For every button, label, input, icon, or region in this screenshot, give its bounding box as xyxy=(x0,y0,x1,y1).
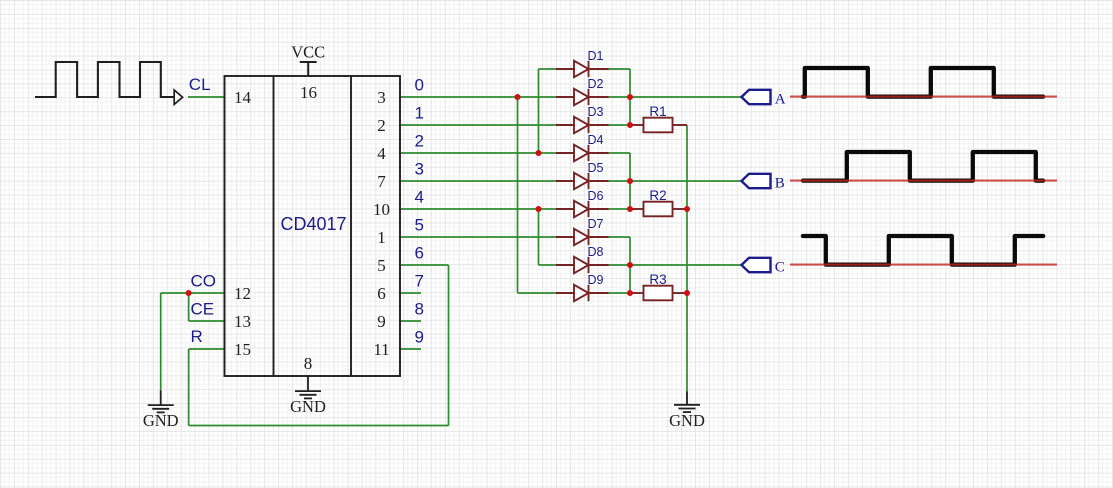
svg-text:16: 16 xyxy=(300,83,317,102)
svg-text:R: R xyxy=(191,327,203,346)
wire U1 output 4 (row) to diode column xyxy=(400,208,561,210)
ground symbol left (CO/CE) xyxy=(148,391,174,413)
svg-text:D6: D6 xyxy=(588,189,604,203)
diode D5 xyxy=(556,173,609,189)
waveform C baseline xyxy=(790,264,1057,266)
svg-text:B: B xyxy=(775,176,785,192)
svg-text:10: 10 xyxy=(373,200,390,219)
junction R2 left junction xyxy=(627,206,633,212)
svg-text:8: 8 xyxy=(415,300,424,319)
svg-text:C: C xyxy=(775,260,785,276)
svg-text:6: 6 xyxy=(377,284,386,303)
svg-text:14: 14 xyxy=(234,88,252,107)
svg-text:4: 4 xyxy=(415,188,424,207)
wire cathode bus phase A vertical (D1-D3) xyxy=(629,69,631,125)
svg-text:7: 7 xyxy=(377,172,386,191)
svg-text:12: 12 xyxy=(234,284,251,303)
wire U1 output 8 stub xyxy=(400,320,421,322)
junction R3 right junction xyxy=(684,290,690,296)
wire CE vertical up to CO junction xyxy=(188,293,190,321)
diode D1 xyxy=(556,61,609,77)
wire resistor common vertical to ground xyxy=(686,125,688,392)
wire anode bus output2: D1 to D4 vertical xyxy=(538,69,540,153)
junction R1 left junction xyxy=(627,122,633,128)
svg-text:GND: GND xyxy=(669,411,705,430)
wire CO vertical down to ground xyxy=(160,293,162,391)
svg-text:4: 4 xyxy=(377,144,386,163)
wire CO net: U1 pin 12 horizontal xyxy=(161,292,225,294)
IC U1 CD4017 body xyxy=(225,76,401,376)
wire U1 output 9 stub xyxy=(400,348,421,350)
diode D6 xyxy=(556,201,609,217)
waveform A trace xyxy=(803,68,1043,97)
svg-text:R1: R1 xyxy=(649,104,666,119)
wire D4 cathode to bus xyxy=(608,152,631,154)
wire U1 output 2 (row) to diode column xyxy=(400,152,561,154)
waveform C trace xyxy=(803,236,1043,265)
svg-text:0: 0 xyxy=(415,76,424,95)
resistor R3 xyxy=(630,286,687,301)
net port flag B xyxy=(742,174,771,188)
junction output2 anode-bus junction xyxy=(536,150,542,156)
wire U1 output 6 horizontal xyxy=(400,264,449,266)
wire D8 anode horizontal xyxy=(539,264,558,266)
wire phase A net to flag A xyxy=(630,96,742,98)
svg-text:3: 3 xyxy=(377,88,386,107)
svg-text:A: A xyxy=(775,92,786,108)
wire R net into U1 pin 15 xyxy=(189,348,225,350)
svg-text:D1: D1 xyxy=(588,49,604,63)
wire D3 cathode to bus xyxy=(608,124,631,126)
diode D4 xyxy=(556,145,609,161)
wire CE net: U1 pin 13 horizontal xyxy=(189,320,225,322)
ground symbol center (U1 pin 8) xyxy=(295,376,321,398)
junction CO/CE junction xyxy=(186,290,192,296)
svg-text:15: 15 xyxy=(234,340,251,359)
svg-text:D3: D3 xyxy=(588,105,604,119)
wire phase B net to flag B xyxy=(630,180,742,182)
net port flag C xyxy=(742,258,771,272)
wire U1 output 0 (row) to diode column xyxy=(400,96,561,98)
wire output 6 vertical down (reset loop) xyxy=(448,265,450,426)
ground symbol right (resistor common) xyxy=(674,392,700,413)
svg-text:5: 5 xyxy=(377,256,386,275)
svg-text:2: 2 xyxy=(415,132,424,151)
svg-text:D5: D5 xyxy=(588,161,604,175)
junction R2 right junction xyxy=(684,206,690,212)
wire anode bus output0: D2 to D9 vertical xyxy=(517,97,519,293)
wire D5 cathode to bus xyxy=(608,180,631,182)
svg-text:R3: R3 xyxy=(649,272,666,287)
diode D3 xyxy=(556,117,609,133)
svg-text:3: 3 xyxy=(415,160,424,179)
junction R3 left junction xyxy=(627,290,633,296)
svg-text:6: 6 xyxy=(415,244,424,263)
waveform B baseline xyxy=(790,180,1057,182)
wire D8 cathode to bus xyxy=(608,264,631,266)
svg-text:2: 2 xyxy=(377,116,386,135)
svg-text:R2: R2 xyxy=(649,188,666,203)
svg-text:1: 1 xyxy=(377,228,386,247)
junction output0 anode-bus junction xyxy=(515,94,521,100)
resistor R2 xyxy=(630,202,687,217)
diode D2 xyxy=(556,89,609,105)
junction phase B cathode junction xyxy=(627,178,633,184)
svg-text:9: 9 xyxy=(415,328,424,347)
wire U1 output 3 (row) to diode column xyxy=(400,180,561,182)
diode D7 xyxy=(556,229,609,245)
wire cathode bus phase B vertical (D4-D6) xyxy=(629,153,631,209)
svg-text:D8: D8 xyxy=(588,245,604,259)
svg-text:D9: D9 xyxy=(588,273,604,287)
clock input square-wave source xyxy=(35,62,174,97)
svg-text:CL: CL xyxy=(189,75,211,94)
svg-text:8: 8 xyxy=(304,354,313,373)
wire D2 cathode to bus xyxy=(608,96,631,98)
wire cathode bus phase C vertical (D7-D9) xyxy=(629,237,631,293)
svg-text:7: 7 xyxy=(415,272,424,291)
junction output4 anode-bus junction xyxy=(536,206,542,212)
svg-text:D2: D2 xyxy=(588,77,604,91)
wire D1 cathode to bus xyxy=(608,68,631,70)
wire U1 output 1 (row) to diode column xyxy=(400,124,561,126)
wire reset loop bottom horizontal xyxy=(189,425,449,427)
waveform A baseline xyxy=(790,96,1057,98)
wire anode bus output4: D6 to D8 vertical xyxy=(538,209,540,265)
junction phase C cathode junction xyxy=(627,262,633,268)
resistor R1 xyxy=(630,118,687,133)
wire U1 output 7 stub xyxy=(400,292,421,294)
wire D9 cathode to bus xyxy=(608,292,631,294)
svg-text:GND: GND xyxy=(143,411,179,430)
wire D7 cathode to bus xyxy=(608,236,631,238)
diode D8 xyxy=(556,257,609,273)
svg-text:1: 1 xyxy=(415,104,424,123)
wire U1 output 5 (row) to diode column xyxy=(400,236,561,238)
net port flag A xyxy=(742,90,771,104)
wire D1 anode horizontal xyxy=(539,68,558,70)
svg-text:VCC: VCC xyxy=(291,43,325,62)
svg-text:GND: GND xyxy=(290,397,326,416)
waveform B trace xyxy=(803,152,1043,181)
svg-text:D4: D4 xyxy=(588,133,604,147)
svg-text:D7: D7 xyxy=(588,217,604,231)
wire D6 cathode to bus xyxy=(608,208,631,210)
svg-text:9: 9 xyxy=(377,312,386,331)
wire CL net: clock arrow to U1 pin 14 xyxy=(188,96,225,98)
svg-text:CD4017: CD4017 xyxy=(280,214,346,234)
svg-text:5: 5 xyxy=(415,216,424,235)
wire phase C net to flag C xyxy=(630,264,742,266)
diode D9 xyxy=(556,285,609,301)
svg-text:11: 11 xyxy=(373,340,389,359)
VCC power symbol xyxy=(300,62,317,76)
svg-text:CE: CE xyxy=(191,300,215,319)
clock arrow into CL pin xyxy=(174,90,182,104)
svg-text:13: 13 xyxy=(234,312,251,331)
wire D9 anode horizontal xyxy=(518,292,558,294)
junction phase A cathode junction xyxy=(627,94,633,100)
svg-text:CO: CO xyxy=(191,272,217,291)
wire reset loop vertical up to R pin xyxy=(188,349,190,426)
